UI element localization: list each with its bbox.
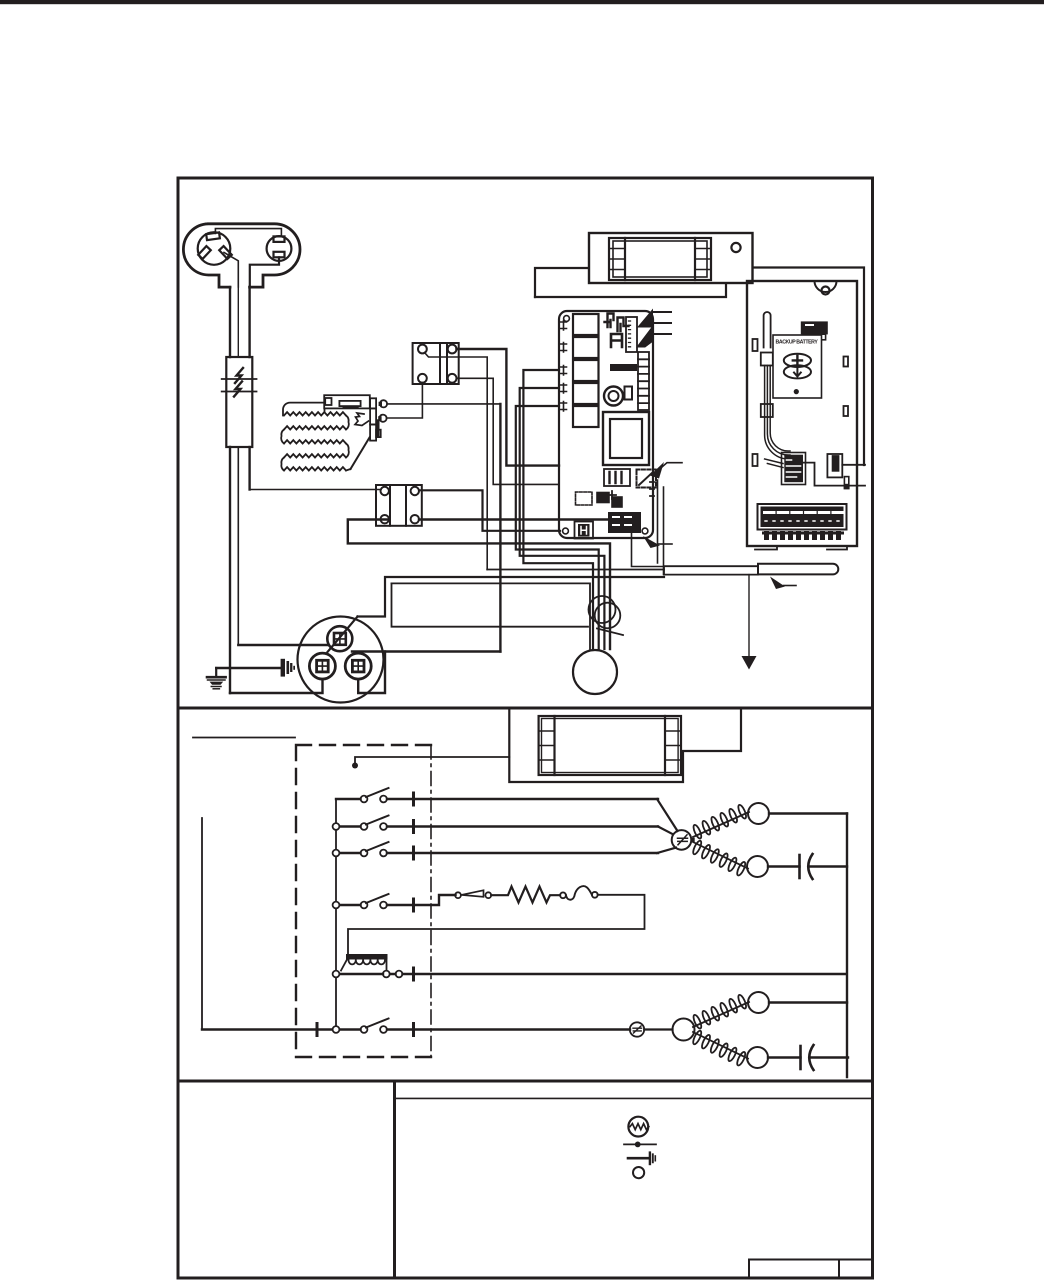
wire: heater bus long vertical — [499, 404, 501, 652]
svg-text:BACKUP BATTERY: BACKUP BATTERY — [776, 340, 819, 346]
board screw bottom-left — [563, 528, 569, 534]
title block box — [749, 1260, 873, 1279]
board small parts lower-left — [576, 491, 623, 507]
plug left receptacle circle — [198, 232, 231, 265]
board edge pins — [561, 321, 567, 412]
legend heater symbol — [628, 1117, 648, 1137]
wire: TB1 TR to board upper — [457, 349, 560, 466]
battery insert ellipse arrow — [784, 365, 811, 378]
relay K2 — [573, 337, 599, 358]
wire: board pin4 loop — [520, 388, 605, 649]
break zigzag upper — [235, 368, 243, 383]
timer dash-dot boundary — [430, 745, 432, 1057]
legend wire with junction dot — [624, 1143, 656, 1145]
chassis ground arrow — [281, 659, 295, 677]
harness ribbon wires — [765, 366, 790, 468]
harness clamp square — [761, 404, 773, 417]
motor M1 upper terminal — [748, 803, 769, 824]
bus terminal stub — [844, 477, 848, 489]
battery insert ellipse plus — [784, 354, 811, 367]
heater terminal 2 tick — [378, 416, 381, 420]
board component H1 — [611, 334, 622, 347]
arrow leader board bottom — [659, 543, 673, 545]
relay K5 — [573, 406, 599, 427]
legend terminal circle — [633, 1167, 644, 1178]
table frame — [178, 1081, 873, 1278]
wire: board output 3 — [653, 333, 671, 335]
motor M1 lower winding — [692, 840, 748, 877]
strain relief break tick lower — [222, 391, 257, 393]
switch row 1 — [336, 788, 658, 805]
wire: right connector to bus — [842, 464, 865, 466]
wire: heater end diagonal to thermal cutoff — [351, 438, 370, 470]
wire: harness connector to right bus — [804, 463, 866, 486]
battery box side tab left lower — [753, 454, 758, 466]
run capacitor C2 — [768, 1056, 801, 1058]
wire: board output 1 — [653, 311, 671, 313]
connector mounting plate — [589, 233, 753, 283]
wire: top stub line — [193, 737, 295, 739]
switch row 6 bottom — [202, 1019, 630, 1036]
earth ground symbol — [207, 668, 226, 689]
board jumper J2 — [618, 318, 629, 332]
battery box outline — [747, 281, 857, 546]
terminal strip TS1 — [758, 504, 847, 530]
plate screw hole — [731, 243, 740, 252]
power cord conductors above strain relief — [229, 287, 231, 357]
wire: white conductor to drum plate center terminal — [238, 644, 328, 646]
timer dashed box — [296, 745, 431, 1057]
thermal cutoff column — [370, 398, 381, 440]
motor M1 upper winding — [692, 804, 749, 840]
top header bar — [0, 0, 1044, 4]
wire: ground to chassis arrow — [216, 667, 280, 669]
thermostat contact symbol — [455, 890, 491, 898]
terminal block TB1 — [413, 343, 459, 384]
wire: drum plate junction to heater bus — [352, 650, 500, 652]
retainer clip squiggle — [355, 413, 369, 426]
timer connector body — [539, 716, 681, 775]
drum mounting plate circle — [298, 617, 384, 703]
antenna base square — [761, 353, 773, 366]
wire: TB2 BL loop to board area — [348, 520, 610, 650]
wire: TB1 BR to board — [457, 378, 560, 484]
wire: rod drop to arrow — [748, 575, 750, 656]
down arrow marker — [742, 656, 757, 670]
motor M2 body — [673, 1019, 695, 1041]
wire: heater terminal1 to bus — [387, 403, 500, 405]
plug right bottom prong — [274, 252, 285, 257]
wire: top terminal to sensor path — [358, 577, 665, 617]
wire: right terminal stub down and right — [358, 652, 385, 694]
motor M2 upper winding — [692, 994, 749, 1030]
tall left wire — [201, 818, 203, 1030]
plate connector body — [609, 238, 711, 280]
wire: board pin3 loop — [523, 370, 593, 649]
wire: heater return loop — [348, 895, 645, 955]
power plug P1 body — [183, 224, 300, 287]
heater terminal 2 circle — [379, 415, 386, 422]
legend chassis ground — [628, 1157, 649, 1160]
battery box side tab right lower — [844, 406, 849, 416]
wire: green conductor to drum plate left stub — [230, 679, 323, 693]
mounting band behind plate — [535, 268, 864, 466]
drum plate top terminal — [327, 626, 352, 651]
wire: TB2 BR to board connector — [419, 518, 619, 520]
wire: left circle to cord mid conductor — [224, 253, 238, 288]
board black tab — [610, 364, 637, 371]
wire: sensor feed upper — [487, 569, 664, 571]
wire: connector right pins down to rod — [658, 480, 664, 575]
radio connector black top — [801, 321, 828, 334]
battery box feet — [755, 546, 847, 550]
right small connector — [827, 454, 842, 477]
wire: board pin5 loop — [516, 406, 599, 649]
board pin connector strip — [626, 317, 637, 352]
wire: heater terminal2 to upper block BL — [387, 383, 423, 419]
wire: TB1 TL pigtail — [425, 353, 488, 570]
board ladder connector — [638, 352, 649, 410]
heater resistor zigzag — [491, 887, 560, 903]
wire: loop into harness C-left — [392, 583, 591, 649]
battery box side tab left upper — [753, 339, 758, 351]
transformer T1 — [341, 954, 388, 971]
wire: TB2 TR to board bottom corner — [419, 490, 560, 531]
drum plate left terminal — [309, 653, 335, 679]
drum plate right terminal — [345, 653, 371, 679]
relay K1 — [573, 314, 599, 335]
plug left top prong — [206, 232, 220, 240]
control board outline U1 — [559, 311, 653, 538]
wire: black conductor to terminal block TB2 — [250, 489, 381, 491]
motor M1 centrifugal switch — [657, 799, 691, 853]
wire: right circle bottom to cord right conductor — [250, 257, 279, 287]
antenna stick — [764, 312, 771, 348]
wire: top terminal diagonal crossing — [328, 617, 358, 653]
motor M1 lower terminal — [747, 856, 768, 877]
relay K3 — [573, 360, 599, 381]
motor M2 upper terminal — [748, 992, 769, 1013]
table divider vertical — [393, 1081, 396, 1278]
plug left lower-left prong — [198, 246, 211, 259]
switch row 4 heater circuit — [333, 894, 456, 911]
arrow leader to relay socket — [655, 463, 683, 474]
transformer row wires — [333, 968, 847, 980]
wire: board output 2 — [653, 322, 671, 324]
wire: plug internal jumper top — [215, 229, 281, 237]
plug left lower-right prong — [219, 246, 232, 259]
relay K4 — [573, 383, 599, 404]
wire: M2 upper to bus — [769, 1001, 847, 1003]
heater element HTR zigzag coils — [281, 403, 350, 471]
motor M2 lower terminal — [747, 1047, 768, 1068]
thermal fuse — [560, 886, 598, 900]
run capacitor C1 — [768, 865, 800, 867]
thermostat body on heater — [324, 395, 370, 411]
plug right top prong — [274, 236, 285, 242]
backup battery label box — [773, 335, 822, 398]
strain relief break tick upper — [222, 378, 257, 380]
board component beside buzzer — [625, 387, 633, 400]
terminal strip teeth — [762, 531, 844, 540]
battery box screw boss — [815, 281, 837, 292]
board wedge arrow lower — [637, 326, 653, 347]
battery box side tab right upper — [844, 357, 849, 367]
strain relief block — [226, 357, 252, 447]
wire: loop C connector vertical — [392, 583, 589, 626]
table header line — [395, 1097, 873, 1099]
board screw bottom-right — [642, 528, 648, 534]
plug right receptacle circle — [267, 236, 292, 261]
wire: M1 upper to right bus — [769, 812, 847, 814]
terminal block TB2 — [376, 485, 422, 526]
board relay socket dashed — [637, 470, 657, 488]
board screw top-left — [564, 316, 570, 322]
heater terminal 1 circle — [380, 400, 387, 407]
motor M2 interlock circle — [630, 1022, 644, 1036]
label dot — [794, 389, 799, 394]
switch row 2 — [333, 816, 658, 833]
board transformer square — [603, 412, 649, 465]
board wedge arrow upper — [637, 309, 653, 328]
board DIP component — [604, 469, 630, 486]
wire: M2 link — [644, 1028, 672, 1030]
wire: board bottom to rod — [632, 533, 665, 567]
cord conductors below strain relief — [229, 447, 231, 693]
motor connector circle — [573, 650, 617, 694]
board right edge pins — [650, 482, 654, 496]
board bottom black connector — [608, 512, 641, 533]
harness slack loop — [589, 596, 624, 635]
heater terminal 1 tick — [379, 402, 382, 406]
board H connector — [575, 522, 594, 539]
timer connector housing — [509, 710, 741, 782]
left bus vertical of switch bank — [335, 799, 337, 1030]
box: upper wiring section frame — [178, 178, 873, 708]
right bus vertical — [846, 814, 848, 1078]
cutoff black bar — [377, 419, 380, 437]
switch row 3 — [333, 842, 658, 859]
arrow leader to sensor rod — [784, 585, 797, 587]
sensor rod — [664, 564, 838, 575]
box: motor schematic section frame — [178, 708, 873, 1081]
motor M2 lower winding — [692, 1030, 748, 1067]
break zigzag lower — [234, 382, 242, 397]
wire: timer feed with junction dot — [355, 757, 509, 766]
harness connector black — [784, 455, 803, 483]
board jumper J1 — [605, 314, 614, 328]
motor M1 coil nub — [691, 838, 695, 842]
board piezo buzzer — [604, 387, 623, 406]
